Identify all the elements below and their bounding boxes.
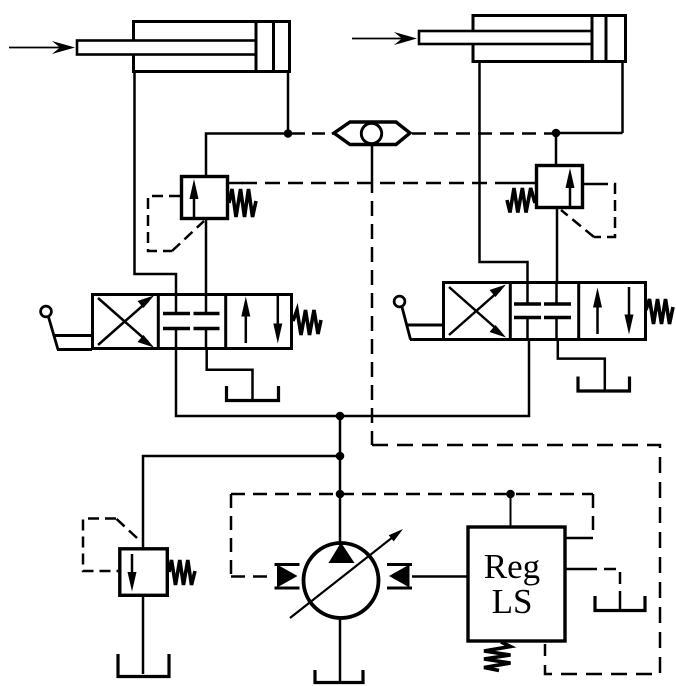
tank T1 (below V1): [227, 386, 279, 401]
shuttle valve SV: [334, 122, 410, 178]
relief valve RV: [120, 549, 168, 596]
tank T3 (below RV): [118, 654, 169, 677]
wire pump case drain to tank: [339, 618, 342, 681]
dashed pilot from pump outlet (right branch to regulator): [340, 494, 593, 538]
spring of CP1: [229, 189, 256, 217]
pilot line CP1 (dashed): [148, 196, 204, 251]
valve V2 body (right 4/3 DCV): [444, 283, 646, 340]
cylinder CYL1 body (left): [134, 22, 290, 72]
wire CP2 bottom to valve V2 port B: [556, 208, 559, 282]
cylinder CYL1 rod: [77, 41, 256, 55]
node regulator sense: [506, 490, 515, 499]
V2 closed-centre blocks: [514, 282, 571, 339]
V1 closed-centre blocks: [163, 294, 220, 349]
pump stroking actuator (left): [275, 565, 300, 589]
pump P1 (variable displacement): [290, 529, 403, 618]
wire regulator sense stub: [510, 494, 512, 526]
pump stroking actuator (right): [387, 565, 412, 589]
dashed pilot from pump outlet (left branch to pump actuator): [231, 494, 340, 577]
svg-text:LS: LS: [492, 582, 533, 621]
dashed LS loop to regulator bottom: [372, 445, 660, 674]
tank T2 (below V2): [578, 377, 630, 392]
wire CYL2 cap-side down: [621, 63, 624, 133]
lever of V1: [41, 306, 92, 349]
wire RV to tank: [142, 596, 145, 674]
node relief branch: [336, 452, 345, 461]
wire junction to compensator CP2 top: [556, 133, 623, 165]
spring of regulator: [484, 642, 511, 671]
node CYL1 LS tap: [284, 129, 293, 138]
wire CYL2 rod-side to valve V2 port A: [480, 63, 528, 282]
cylinder CYL2 rod: [419, 31, 592, 44]
node CYL2 LS tap: [552, 129, 561, 138]
dashed LS line: shuttle output down: [371, 178, 374, 445]
tank T4 (below pump): [315, 670, 363, 683]
dashed LS line between compensator springs: [242, 182, 503, 185]
spring of CP2: [507, 188, 535, 213]
spring of V1: [293, 310, 321, 335]
cylinder CYL2 body (right): [473, 16, 626, 62]
node pilot branch: [336, 490, 345, 499]
V2 parallel arrows cell: [593, 287, 634, 335]
spring of V2: [646, 299, 673, 324]
compensator CP2: [503, 166, 597, 208]
dashed pilot: junction to shuttle left: [292, 132, 336, 135]
dashed pilot: shuttle right to junction: [412, 132, 552, 135]
wire to relief valve RV: [143, 456, 340, 548]
node P junction: [336, 412, 345, 421]
V2 crossed arrows cell: [449, 285, 506, 338]
cylinder CYL2 piston: [592, 17, 606, 60]
V1 crossed arrows cell: [98, 296, 154, 348]
wire pump actuator to regulator: [412, 575, 467, 578]
tank T5 (regulator drain): [595, 596, 645, 611]
wire V2 tank line: [558, 339, 605, 391]
wire CYL1 cap-side down: [287, 73, 290, 134]
regulator drain to tank (dashed): [565, 569, 620, 609]
wire pump outlet riser: [339, 416, 342, 543]
svg-text:Reg: Reg: [484, 547, 540, 586]
V1 parallel arrows cell: [241, 296, 282, 344]
cylinder CYL1 piston: [256, 23, 274, 70]
pilot line RV (dashed): [83, 519, 137, 572]
spring of RV: [169, 560, 195, 585]
compensator CP1: [182, 177, 244, 219]
wire regulator right top port: [565, 537, 593, 540]
load arrow F1: [9, 41, 75, 54]
wire V1 tank line: [207, 349, 253, 400]
lever of V2: [394, 296, 443, 339]
regulator Reg LS: [468, 527, 565, 641]
load arrow F2: [352, 32, 417, 45]
wire CYL1 rod-side to valve V1 port A: [135, 73, 177, 294]
wire CP1 bottom to valve V1 port B: [205, 219, 208, 294]
wire junction to compensator CP1 top: [206, 134, 288, 177]
pilot line CP2 (dashed): [561, 184, 615, 237]
wire P supply line: [176, 340, 529, 416]
valve V1 body (left 4/3 DCV): [93, 295, 292, 349]
